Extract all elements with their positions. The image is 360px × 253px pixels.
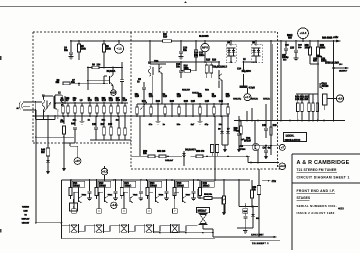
svg-text:CIRCUIT: CIRCUIT xyxy=(22,223,31,225)
svg-text:+2.7: +2.7 xyxy=(245,95,251,99)
wire CF6 output to AFC rail xyxy=(203,225,214,238)
capacitor C33 10n with ground xyxy=(290,41,298,61)
svg-text:10n: 10n xyxy=(71,82,76,84)
transistor TR8 BF195 oscillator xyxy=(244,121,259,163)
svg-text:ISSUE 2 AUGUST 1983: ISSUE 2 AUGUST 1983 xyxy=(297,211,335,215)
wire upper bus mixer section xyxy=(137,103,229,105)
label SL1648 mixer xyxy=(199,35,209,38)
small box detector D10 xyxy=(70,199,78,211)
label local oscillator xyxy=(284,133,307,142)
test point +2.7 xyxy=(244,88,251,101)
IF strip supply rail xyxy=(62,179,251,181)
resistor R20 4k7 pair xyxy=(205,62,213,78)
resistor R26 22k oscillator xyxy=(234,121,243,146)
transistor TR2 BF195A xyxy=(87,67,116,86)
IF stage transistor TR14 xyxy=(105,187,114,203)
wire TR2 collector to rail x104 xyxy=(103,57,105,68)
title issue 2 xyxy=(297,211,335,215)
ground arrow below C30 cluster xyxy=(62,143,66,172)
svg-text:SFE10.7: SFE10.7 xyxy=(198,211,208,213)
wire mixer mid links xyxy=(196,56,257,63)
svg-text:10n: 10n xyxy=(183,50,188,52)
svg-text:+10: +10 xyxy=(116,47,122,51)
component L3 xyxy=(80,99,84,116)
svg-text:T21 STEREO FM TUNER: T21 STEREO FM TUNER xyxy=(297,168,338,172)
svg-text:C25: C25 xyxy=(205,101,210,103)
svg-text:100kΩ: 100kΩ xyxy=(124,186,131,188)
wire AGC line left xyxy=(35,136,74,138)
node I.F. output xyxy=(332,63,349,72)
svg-text:100kΩ: 100kΩ xyxy=(203,186,210,188)
component C26 10n xyxy=(219,100,224,116)
svg-text:100k: 100k xyxy=(81,49,87,51)
resistor column item 3 xyxy=(308,94,311,121)
component C8 10n xyxy=(73,97,78,116)
svg-text:R46: R46 xyxy=(71,122,76,125)
inductor L6 4.7uH solid bar xyxy=(240,86,256,90)
front end screening box dashed right xyxy=(277,32,279,169)
label C58 470 xyxy=(313,58,318,63)
wire stubs mixer band xyxy=(247,104,266,121)
wire tuning line vertical xyxy=(35,110,37,223)
supply rail arrow +15v xyxy=(333,36,342,42)
resistor R53 470 xyxy=(191,150,251,158)
svg-text:C26: C26 xyxy=(219,101,224,103)
component C24 4p7 xyxy=(191,100,196,116)
label C31 C32 top right xyxy=(285,44,303,49)
IF strip frame bottom xyxy=(62,238,216,240)
junction dots lower rail xyxy=(47,115,229,117)
svg-text:R57: R57 xyxy=(288,38,293,40)
labels above mixer bus xyxy=(182,88,210,94)
varicap arrow mid band xyxy=(140,101,147,110)
svg-text:OUTPUT: OUTPUT xyxy=(339,71,348,73)
transistor TR6 BC184LB xyxy=(212,66,228,88)
component pair x119-127 xyxy=(118,116,127,140)
test point +7 xyxy=(279,144,285,150)
wire tuning line horizontal xyxy=(35,222,62,224)
IF stage transistor TR17 xyxy=(183,187,191,203)
component C22 1n xyxy=(163,93,168,116)
resistor R10 1k2 in series with rail xyxy=(163,33,172,42)
svg-text:+4.6: +4.6 xyxy=(111,203,117,207)
svg-text:C45,4n7: C45,4n7 xyxy=(165,159,174,162)
component C23 10n xyxy=(177,93,182,116)
IF stage 2 bias resistor xyxy=(95,180,98,199)
sheet reference underline xyxy=(250,240,280,242)
resistor R5 100k xyxy=(78,41,87,57)
label AFC line xyxy=(251,233,264,236)
svg-text:C41: C41 xyxy=(92,123,97,126)
svg-text:C21: C21 xyxy=(149,96,154,98)
svg-text:R12: R12 xyxy=(102,100,107,102)
resistor chain R45 with ground arrow xyxy=(41,116,50,175)
IF stage RV2 label box xyxy=(98,181,111,187)
label R15 R16 xyxy=(206,59,217,62)
svg-text:+7: +7 xyxy=(281,145,285,149)
svg-text:4.7μH: 4.7μH xyxy=(249,86,256,89)
ground demod xyxy=(237,228,253,233)
ceramic filter CF3 xyxy=(120,224,129,233)
component R12 56k xyxy=(102,97,107,116)
front end screening box dashed top xyxy=(33,31,278,33)
svg-text:C33: C33 xyxy=(290,48,295,50)
wire to +5V test point xyxy=(70,146,78,158)
svg-text:100kΩ: 100kΩ xyxy=(73,186,80,188)
svg-text:+1.7: +1.7 xyxy=(111,92,116,94)
IF stage RV4 label box xyxy=(149,181,162,187)
svg-text:C30: C30 xyxy=(60,121,65,123)
svg-text:SERIAL NUMBERS 0001-: SERIAL NUMBERS 0001- xyxy=(297,204,337,208)
svg-text:R11: R11 xyxy=(88,100,93,102)
component R25 470 xyxy=(198,93,203,116)
left edge tick 2 xyxy=(0,229,1,232)
value labels below rail row2 xyxy=(149,123,223,126)
test point +0.3 xyxy=(279,163,286,170)
svg-text:LINE: LINE xyxy=(23,211,28,213)
resistor network R30-R34 labels xyxy=(295,96,310,101)
label C45 4n7 xyxy=(165,159,174,162)
resistor R35 xyxy=(323,94,337,110)
svg-text:D8,BA479: D8,BA479 xyxy=(185,148,196,151)
IF stage 5 bias resistor xyxy=(173,180,176,199)
IF stage transistor TR16 xyxy=(156,187,164,203)
svg-text:C20: C20 xyxy=(135,96,140,98)
svg-text:R15: R15 xyxy=(206,60,211,62)
wire oscillator node y145 xyxy=(240,145,279,147)
svg-text:TR17: TR17 xyxy=(186,194,191,196)
label TR9 BF195 xyxy=(239,146,246,151)
wire x122 coupling xyxy=(113,62,124,104)
svg-text:RV4: RV4 xyxy=(150,182,155,185)
svg-text:OSCILLATOR: OSCILLATOR xyxy=(285,139,301,142)
IF stage 6 bias resistor xyxy=(199,180,202,199)
svg-text:C13: C13 xyxy=(123,100,128,102)
title front end and IF xyxy=(297,189,336,193)
svg-text:+15v: +15v xyxy=(333,36,339,39)
ceramic filter CF2 xyxy=(95,224,104,233)
front end screening box dashed left xyxy=(32,32,34,143)
wire TR2 emitter branch x79 xyxy=(78,57,80,60)
label L5 xyxy=(243,58,246,61)
capacitor C15 row xyxy=(179,62,183,78)
wire IF filter staircase xyxy=(62,226,198,232)
svg-text:150R: 150R xyxy=(320,47,326,49)
IF stage RV6 label box xyxy=(202,181,215,187)
test point +1.7 xyxy=(111,86,117,96)
svg-text:10n: 10n xyxy=(176,66,181,68)
component C20 10n xyxy=(135,93,140,116)
wire mixer lower rail xyxy=(234,120,345,122)
IF stage RV5 label box xyxy=(176,181,189,187)
component R11 1k xyxy=(88,97,93,116)
demod cluster C148 xyxy=(239,203,259,228)
component C11 47p xyxy=(95,97,100,116)
svg-text:C42: C42 xyxy=(108,123,113,126)
capacitor C41 cluster xyxy=(90,116,131,140)
wire x310 bottom link xyxy=(310,63,319,65)
svg-text:C27,1n: C27,1n xyxy=(263,98,271,100)
test point +9.3 xyxy=(101,166,108,180)
svg-text:·71v: ·71v xyxy=(271,181,276,183)
IF stage 4 emitter capacitor xyxy=(164,179,169,201)
front end screening box dashed bottom right xyxy=(131,168,281,170)
svg-text:10p,NPO: 10p,NPO xyxy=(242,71,252,73)
IF stage 4 bias resistor xyxy=(146,180,149,199)
title stages xyxy=(297,196,311,200)
svg-text:+0.3: +0.3 xyxy=(280,164,286,168)
capacitor C47 4n7 with ground arrow xyxy=(263,145,273,159)
svg-text:C26,47p: C26,47p xyxy=(233,97,242,100)
IF takeoff components R50 R51 xyxy=(140,150,182,158)
svg-text:SL1648B: SL1648B xyxy=(199,35,209,38)
svg-text:R60 560R: R60 560R xyxy=(322,38,333,40)
ground stubs below rail xyxy=(80,116,203,124)
ceramic filter CF2 coupling box xyxy=(97,209,102,214)
svg-text:100k: 100k xyxy=(106,49,112,51)
IF stage transistor TR15 xyxy=(130,187,138,203)
junction dots mixer rail xyxy=(239,120,334,122)
resistor column item 4 xyxy=(312,94,315,121)
svg-text:TR6,BC184LB: TR6,BC184LB xyxy=(212,66,228,69)
label C9 1n xyxy=(137,78,142,83)
inductor L1 xyxy=(42,95,53,112)
component R13 4k7 xyxy=(116,97,121,116)
svg-text:BF195: BF195 xyxy=(322,86,330,88)
svg-text:R22,4k7: R22,4k7 xyxy=(182,88,191,91)
small boxes on IF takeoff xyxy=(211,145,219,157)
diode pair D6 D7 limiter xyxy=(218,116,231,153)
afc sample resistor R49 xyxy=(252,169,261,237)
title T21 stereo FM tuner xyxy=(297,168,338,172)
svg-text:C23: C23 xyxy=(177,96,182,98)
label TR3 BF195 xyxy=(154,60,159,63)
svg-text:10n: 10n xyxy=(64,50,69,52)
svg-text:A.F.C. LINE: A.F.C. LINE xyxy=(251,233,263,236)
capacitor C10 10n with ground xyxy=(179,41,188,59)
component R21 220 xyxy=(142,100,147,116)
capacitor C4 10n xyxy=(64,41,73,56)
svg-text:TR3: TR3 xyxy=(154,61,159,63)
resistor R9 39k and capacitor C7 xyxy=(56,79,109,86)
wire L1 bottom loop xyxy=(35,112,55,120)
svg-text:10n: 10n xyxy=(135,94,140,96)
component R24 10k xyxy=(184,100,189,116)
front end screening box dashed bottom left xyxy=(33,142,131,144)
antenna connector AE1 xyxy=(16,102,36,111)
title circuit diagram sheet 1 xyxy=(297,175,350,179)
label C13 10n xyxy=(176,63,181,68)
wire rail drop x196 xyxy=(194,41,198,57)
varicap module D1 dashed box xyxy=(226,41,237,63)
svg-text:R48: R48 xyxy=(273,124,278,127)
ceramic filter CF4 xyxy=(145,224,154,233)
resistor R6 100k xyxy=(103,41,112,57)
ceramic filter CF1 coupling box xyxy=(72,209,77,214)
svg-text:100kΩ: 100kΩ xyxy=(177,186,184,188)
svg-text:100kΩ: 100kΩ xyxy=(99,186,106,188)
svg-text:TR1,MPF102: TR1,MPF102 xyxy=(58,109,60,119)
svg-text:TO SHEET 2: TO SHEET 2 xyxy=(252,243,269,245)
svg-text:BF,195A: BF,195A xyxy=(107,70,116,73)
diode D8 BA479 xyxy=(182,148,196,162)
varicap module D2 dashed box xyxy=(251,41,263,63)
ceramic filter CF6 vertical SFE10.7 xyxy=(197,208,210,225)
svg-text:10n: 10n xyxy=(109,98,114,100)
label to sheet 2 xyxy=(252,243,269,246)
ceramic filter CF3 coupling box xyxy=(122,209,127,214)
page top border xyxy=(0,6,360,8)
wire IF cells to filters xyxy=(74,192,179,209)
svg-text:TR13: TR13 xyxy=(82,194,87,196)
ceramic filter CF5 xyxy=(171,224,180,233)
svg-text:C24,1n: C24,1n xyxy=(192,91,200,94)
wire IF strip inner rail xyxy=(153,232,213,234)
IF stage RV3 label box xyxy=(123,181,136,187)
svg-text:TR15: TR15 xyxy=(133,194,138,196)
svg-text:CIRCUIT DIAGRAM SHEET 1: CIRCUIT DIAGRAM SHEET 1 xyxy=(297,175,350,179)
label C14 10p NPO xyxy=(237,67,251,72)
junction dots on supply rail xyxy=(70,40,334,42)
svg-text:100n: 100n xyxy=(199,55,205,57)
transistor TR1 MPF102 xyxy=(54,96,60,119)
IF stage 1 bias resistor xyxy=(69,180,72,199)
label C56 100R xyxy=(321,58,327,63)
svg-text:R26: R26 xyxy=(212,96,217,98)
svg-text:DISPLAY: DISPLAY xyxy=(21,218,30,221)
svg-text:MP5: MP5 xyxy=(202,46,208,50)
title block frame xyxy=(292,154,360,250)
label 71v with arrow xyxy=(262,180,277,183)
resistor R18 100k xyxy=(181,65,196,72)
svg-text:R24: R24 xyxy=(184,100,189,103)
svg-text:4033: 4033 xyxy=(338,207,344,211)
svg-text:+14.6: +14.6 xyxy=(300,31,307,35)
resistor R58 100R xyxy=(305,41,312,64)
junction dots IF takeoff bus xyxy=(131,156,248,158)
wire drop to IF output node xyxy=(333,41,335,121)
test point +5V xyxy=(74,158,81,165)
left edge tick 1 xyxy=(0,56,2,60)
IF stage RV1 label box xyxy=(72,181,85,187)
svg-text:+9.3: +9.3 xyxy=(102,170,108,174)
svg-text:C24: C24 xyxy=(191,100,196,103)
IF stage 3 bias resistor xyxy=(120,180,123,199)
resistor column item 1 xyxy=(297,94,300,121)
capacitor C9 xyxy=(142,82,146,104)
svg-text:R47: R47 xyxy=(101,123,106,126)
wire rail drop to TR3 xyxy=(149,41,151,64)
wire mixer interconnects xyxy=(196,62,244,86)
upper right decoupling caps xyxy=(282,41,289,59)
label tuning line to display circuit xyxy=(21,206,30,225)
svg-text:100R: 100R xyxy=(321,61,327,63)
svg-text:100kΩ: 100kΩ xyxy=(150,186,157,188)
component R26 1k xyxy=(212,93,217,116)
IF stage 5 emitter capacitor xyxy=(191,179,196,201)
svg-text:R56,33k: R56,33k xyxy=(204,194,213,196)
resistor column item 2 xyxy=(301,94,304,121)
svg-text:C11: C11 xyxy=(95,100,100,102)
IF stage 1 emitter capacitor xyxy=(87,179,92,201)
svg-text:10n: 10n xyxy=(177,94,182,96)
svg-text:47n: 47n xyxy=(149,93,154,96)
top edge speck xyxy=(185,2,187,4)
transistor TR11 BF195 xyxy=(318,55,330,121)
inductor L2 xyxy=(55,92,65,106)
component C6 1n xyxy=(61,97,65,116)
varicap tuning arrow xyxy=(44,102,51,112)
test point +10 xyxy=(114,41,123,53)
ceramic filter CF4 coupling box xyxy=(147,209,152,214)
value labels below rail row1 xyxy=(61,119,120,122)
wire long drop local oscillator feed xyxy=(271,41,272,155)
junction dots IF rail xyxy=(70,179,240,181)
svg-text:R25: R25 xyxy=(198,96,203,98)
IF stage transistor TR13 xyxy=(79,187,87,203)
resistor R56 33k xyxy=(198,189,218,200)
component C12 10n xyxy=(109,97,114,116)
svg-text:LOCAL: LOCAL xyxy=(286,135,295,138)
component C13 1n xyxy=(123,97,128,116)
IF stage 2 emitter capacitor xyxy=(113,179,118,201)
IF strip frame left edge xyxy=(61,180,63,239)
transistor TR3 and coil L4 xyxy=(148,61,166,79)
ceramic filter CF1 xyxy=(70,224,79,233)
component C25 47p xyxy=(205,100,210,116)
wire oscillator node y162 xyxy=(248,156,279,163)
test point MP5 xyxy=(201,41,209,62)
svg-text:CF55 10.7M3: CF55 10.7M3 xyxy=(325,63,340,65)
wire IF takeoff verticals xyxy=(140,116,216,181)
wire front-end lower rail xyxy=(33,115,229,117)
svg-text:C12: C12 xyxy=(109,100,114,102)
svg-text:R10: R10 xyxy=(163,37,168,39)
svg-text:R22: R22 xyxy=(156,101,161,103)
svg-text:R23: R23 xyxy=(170,101,175,103)
wire TR2 base feed xyxy=(88,76,107,90)
label R14 C12 cluster xyxy=(194,51,205,57)
component R7 10k xyxy=(66,97,71,116)
labels mixer right band xyxy=(233,97,271,100)
resistor R8 224 xyxy=(87,63,113,83)
svg-text:C22: C22 xyxy=(163,96,168,98)
component R27 22k xyxy=(226,93,231,116)
component R23 3k3 xyxy=(170,100,175,116)
svg-text:FRONT END AND I.F.: FRONT END AND I.F. xyxy=(297,189,336,193)
svg-text:TUNING: TUNING xyxy=(22,207,30,209)
wire upper bus RF section xyxy=(55,102,128,104)
svg-text:D16: D16 xyxy=(256,218,259,220)
svg-text:+5V: +5V xyxy=(75,159,80,163)
capacitor C46 C45 oscillator xyxy=(262,121,277,146)
wire TR6 emitter down xyxy=(219,81,223,105)
ground below C4 xyxy=(69,57,74,60)
label R57 560R xyxy=(287,34,293,39)
transistor TR18 xyxy=(218,197,225,213)
title serial numbers xyxy=(297,204,345,211)
test point +4.6 xyxy=(111,202,117,208)
ceramic filter CF5 coupling box xyxy=(173,209,178,214)
decoupling cluster C30 R46 xyxy=(60,116,77,146)
component R22 10k xyxy=(156,100,161,116)
wire top of resistor column xyxy=(296,93,318,95)
svg-text:+6.6: +6.6 xyxy=(337,96,343,100)
svg-text:R27,1k: R27,1k xyxy=(251,98,259,100)
svg-text:A & R CAMBRIDGE: A & R CAMBRIDGE xyxy=(297,160,350,166)
wire demod feed xyxy=(222,180,239,216)
resistor feed demod xyxy=(251,180,254,207)
